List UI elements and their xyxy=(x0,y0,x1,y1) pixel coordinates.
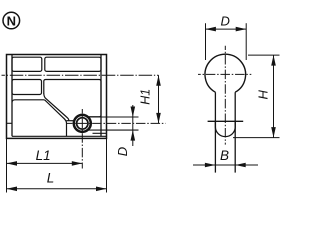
slot lower edge right of cylinder xyxy=(87,129,138,131)
arrowhead B left (outside) xyxy=(205,163,216,168)
svg-text:B: B xyxy=(220,148,229,163)
arrowhead B right (outside) xyxy=(235,163,246,168)
svg-text:H1: H1 xyxy=(139,89,153,105)
dimension D (cylinder) dimension line xyxy=(132,105,134,146)
arrowhead H1 bottom xyxy=(156,113,161,124)
bottom shelf line xyxy=(12,135,107,137)
svg-text:N: N xyxy=(7,13,16,28)
cylinder vertical centerline xyxy=(81,109,83,169)
dimension L extension right xyxy=(106,138,108,192)
view label N (circled) xyxy=(3,12,20,29)
horizontal centerline xyxy=(198,73,251,75)
dimension H dimension line xyxy=(273,55,275,138)
arrowhead H1 top xyxy=(156,75,161,86)
svg-text:D: D xyxy=(115,147,130,156)
pocket P4 diagonal wall xyxy=(44,94,69,121)
svg-text:L1: L1 xyxy=(36,148,51,163)
dimension D dimension line xyxy=(205,28,246,30)
neck right line + B extension xyxy=(234,92,236,172)
svg-text:D: D xyxy=(221,14,230,29)
svg-text:L: L xyxy=(47,171,55,186)
rear pocket bottom shelf right xyxy=(93,132,107,134)
arrowhead H bottom xyxy=(271,127,276,138)
cylinder outer circle xyxy=(74,115,91,132)
vertical centerline xyxy=(224,46,226,145)
slot upper edge right of cylinder xyxy=(89,116,101,118)
main horizontal centerline xyxy=(2,74,159,76)
dimension H extension bottom xyxy=(233,137,280,139)
pocket P4 mid-right outline xyxy=(44,80,101,117)
head arc (keyhole outline) xyxy=(205,54,246,92)
inner right wall line xyxy=(100,55,102,137)
pocket P3 mid-left xyxy=(12,80,42,95)
dimension H extension top xyxy=(248,54,280,56)
dimension L dimension line xyxy=(7,188,107,190)
svg-text:H: H xyxy=(256,89,271,99)
arrowhead L right xyxy=(96,187,107,192)
left wall joint line xyxy=(7,122,13,124)
block outer outline xyxy=(7,55,107,139)
neck left line + B extension xyxy=(214,92,216,172)
dimension H1 line xyxy=(158,75,160,123)
pocket P1 top-left xyxy=(12,57,42,71)
pocket P2 top-right xyxy=(45,57,101,71)
bottom face line xyxy=(208,120,244,122)
dimension B dimension line xyxy=(193,164,258,166)
pocket P5 lower outline xyxy=(12,100,67,137)
dimension L1 dimension line xyxy=(7,162,83,164)
dimension D extension right xyxy=(245,23,247,60)
cylinder inner circle xyxy=(77,118,88,129)
arrowhead H top xyxy=(271,55,276,66)
arrowhead D left xyxy=(205,27,216,32)
arrowhead L left xyxy=(7,187,18,192)
cylinder horizontal centerline xyxy=(66,122,166,124)
arrowhead D upper xyxy=(131,107,136,118)
dimension D (cylinder) extension line upper xyxy=(89,116,139,118)
shared left extension line for L1 and L xyxy=(6,138,8,192)
arrowhead L1 left xyxy=(7,161,18,166)
arrowhead D lower xyxy=(131,130,136,141)
bottom dome xyxy=(215,121,235,136)
inner left wall line xyxy=(11,55,13,137)
slot upper edge left of cylinder xyxy=(67,120,75,122)
dimension D extension left xyxy=(205,23,207,60)
arrowhead L1 right xyxy=(72,161,83,166)
arrowhead D right xyxy=(236,27,247,32)
